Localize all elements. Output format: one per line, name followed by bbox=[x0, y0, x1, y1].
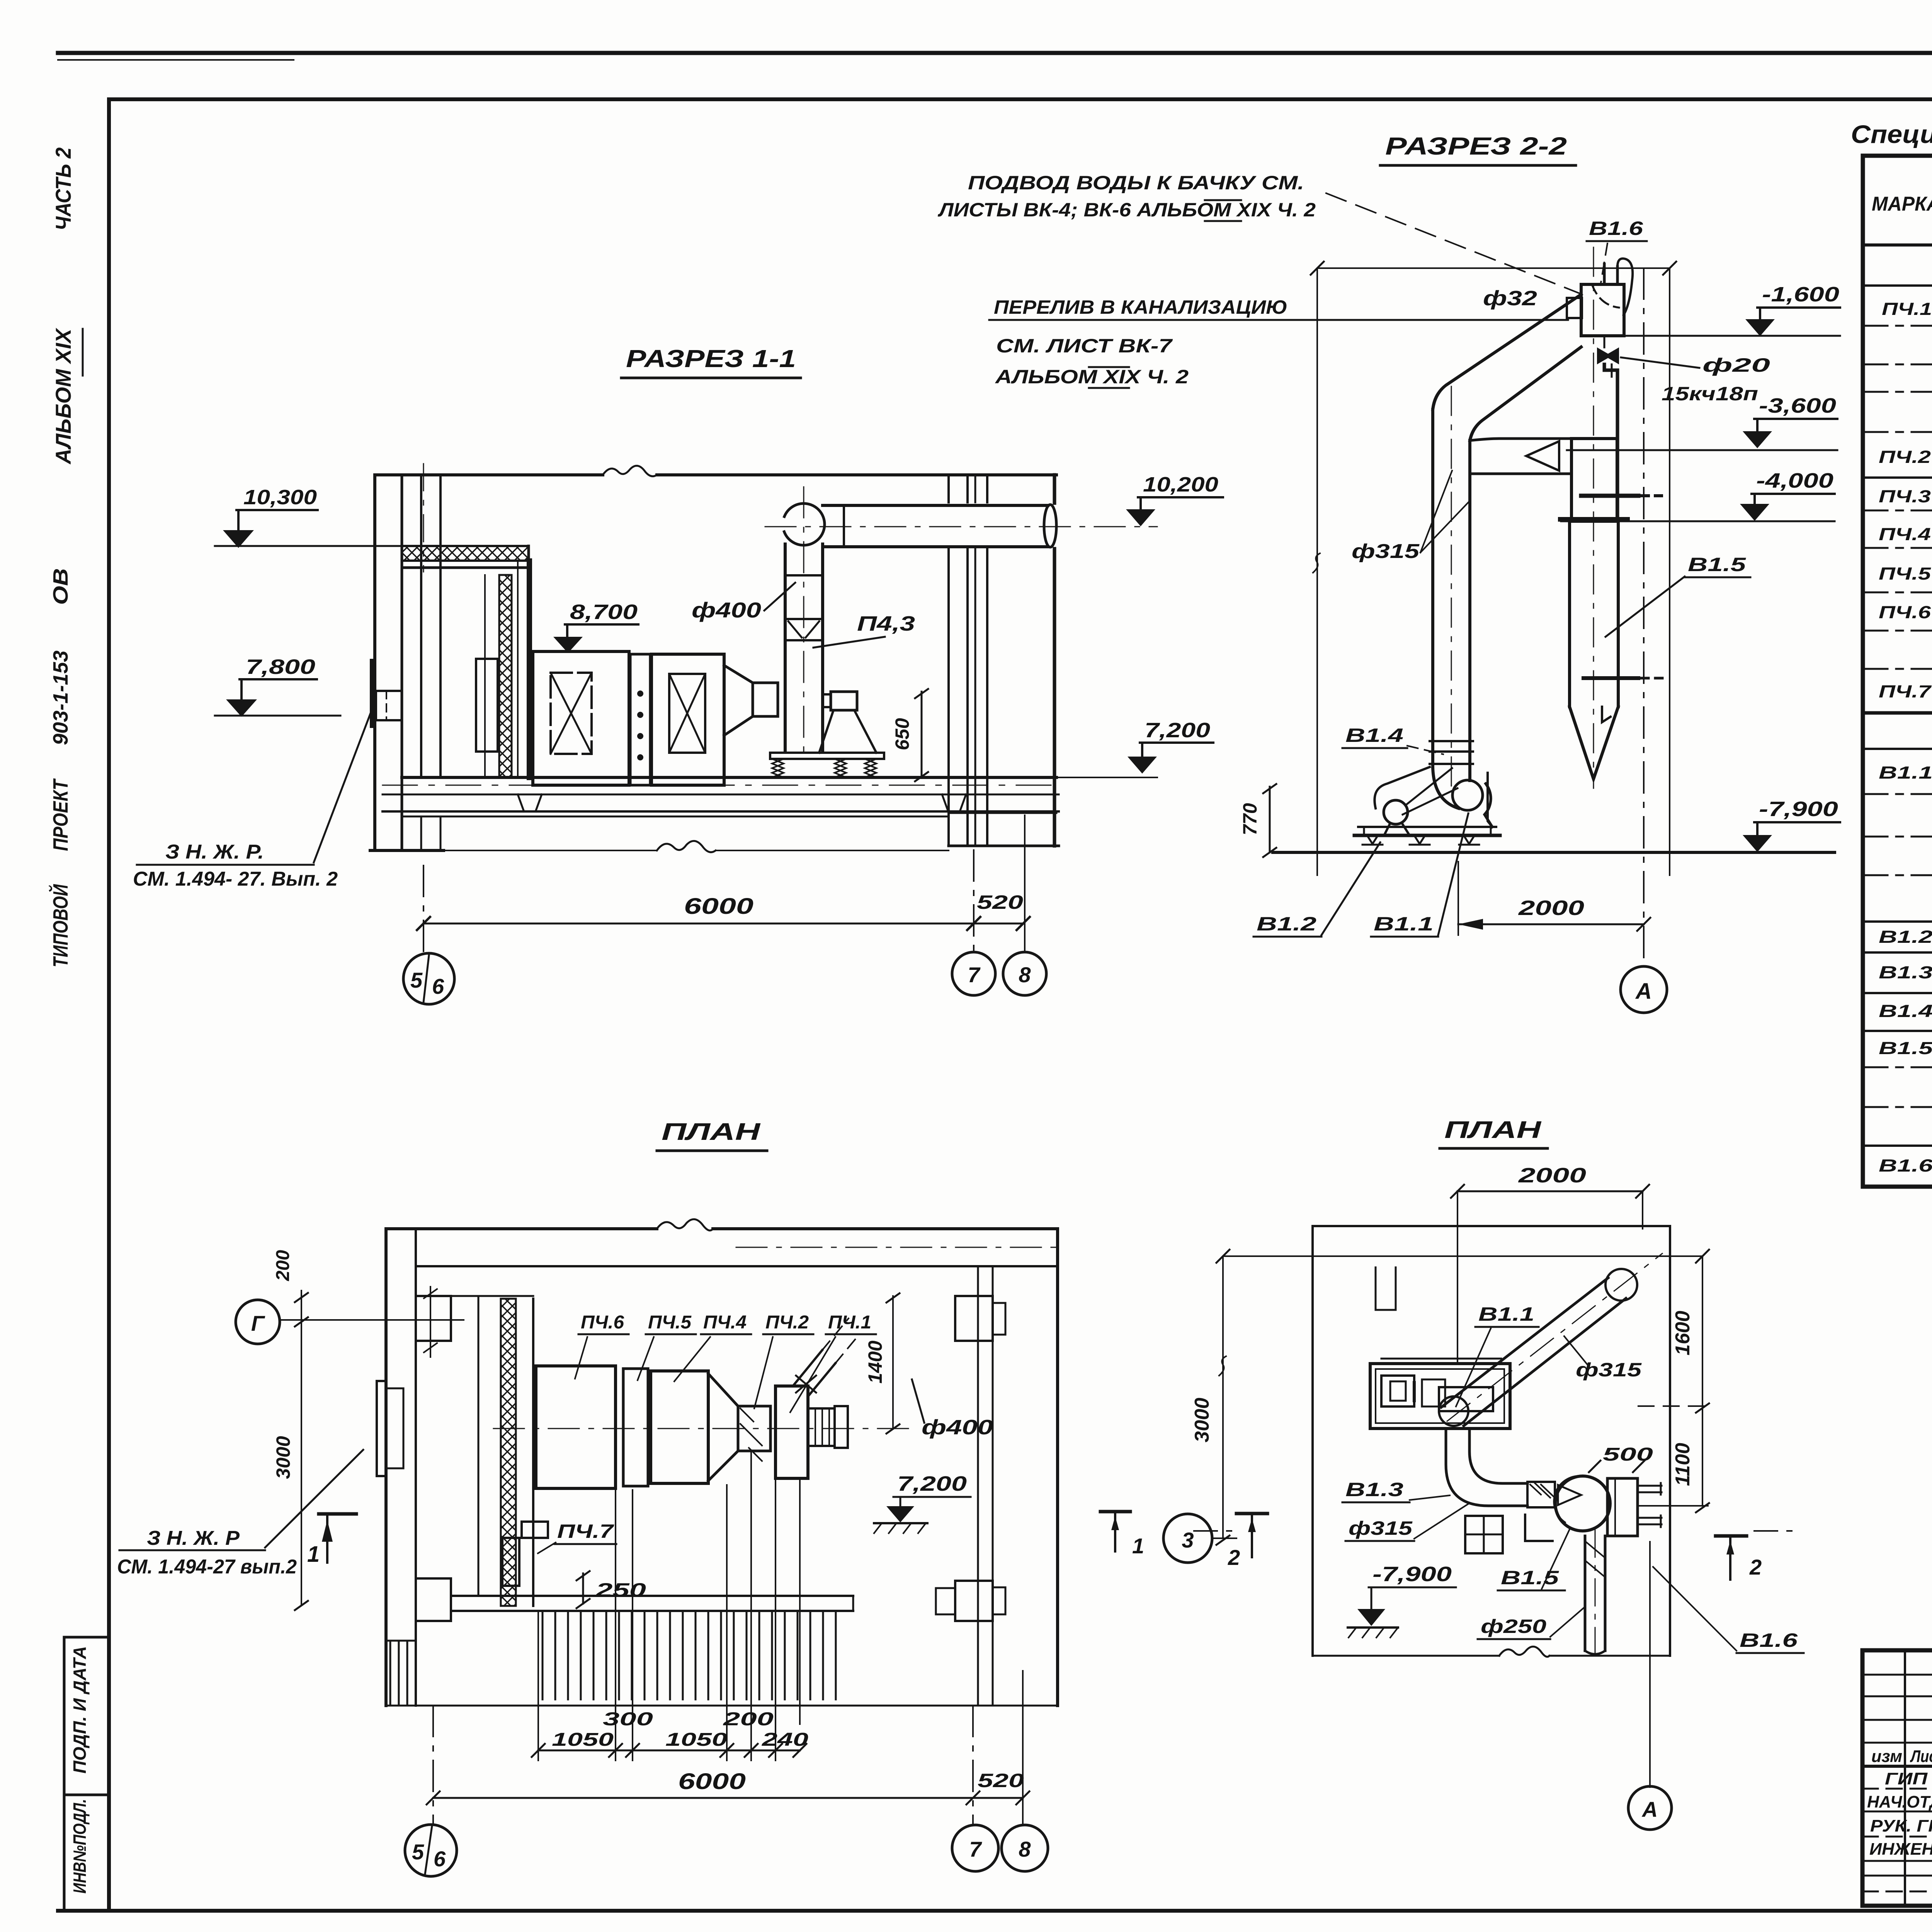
svg-text:СМ. ЛИСТ ВК-7: СМ. ЛИСТ ВК-7 bbox=[996, 335, 1173, 357]
svg-text:200: 200 bbox=[723, 1709, 774, 1730]
platform edge lines bbox=[451, 1595, 853, 1597]
svg-text:903-1-153: 903-1-153 bbox=[49, 651, 72, 745]
overall dimension lines bbox=[1317, 267, 1670, 269]
left wall footing bbox=[420, 816, 422, 850]
svg-text:З Н. Ж. Р.: З Н. Ж. Р. bbox=[165, 841, 264, 863]
fan В1.1 elbow bbox=[1433, 742, 1470, 808]
svg-text:15кч18п: 15кч18п bbox=[1662, 383, 1758, 405]
flow arrow in duct bbox=[1526, 441, 1559, 471]
svg-text:НАЧ.ОТД.: НАЧ.ОТД. bbox=[1867, 1793, 1932, 1811]
svg-text:ПЧ.2: ПЧ.2 bbox=[1879, 447, 1931, 467]
small comb below left wall bbox=[390, 1641, 407, 1706]
unit В1.1 outer box bbox=[1370, 1364, 1510, 1429]
svg-text:1600: 1600 bbox=[1672, 1311, 1694, 1355]
svg-text:А: А bbox=[1635, 979, 1652, 1004]
svg-text:ПЧ.6: ПЧ.6 bbox=[1879, 602, 1931, 622]
grid axis 5/6 bbox=[423, 866, 424, 953]
cyclone body В1.5 bbox=[1570, 521, 1618, 707]
svg-text:ф400: ф400 bbox=[692, 598, 761, 622]
wall left inner line bbox=[401, 475, 403, 850]
dimension 650 bbox=[921, 692, 923, 777]
row lines dashed bbox=[1863, 325, 1932, 327]
fan impeller circle bbox=[1452, 780, 1483, 810]
pilaster bottom-left bbox=[416, 1578, 451, 1621]
svg-text:ПЧ.1: ПЧ.1 bbox=[828, 1312, 871, 1333]
cyclone flange 1 bbox=[1581, 494, 1638, 498]
section mark 2 right bbox=[1716, 1534, 1747, 1538]
svg-text:Спецификация отопительно-венти: Спецификация отопительно-вентиляционных … bbox=[1851, 120, 1932, 148]
partition wall line bbox=[478, 1296, 480, 1596]
svg-text:10,200: 10,200 bbox=[1143, 473, 1218, 496]
svg-text:СМ. 1.494- 27. Вып. 2: СМ. 1.494- 27. Вып. 2 bbox=[133, 868, 338, 890]
flexible insert В1.4 on riser bbox=[1430, 740, 1473, 742]
svg-text:РАЗРЕЗ 2-2: РАЗРЕЗ 2-2 bbox=[1385, 132, 1567, 160]
table header texts bbox=[1872, 177, 1932, 748]
svg-text:10,300: 10,300 bbox=[243, 486, 317, 509]
svg-text:520: 520 bbox=[977, 891, 1023, 913]
vibration springs bbox=[772, 759, 784, 777]
grid axis А bbox=[1649, 1542, 1651, 1787]
svg-text:770: 770 bbox=[1239, 803, 1261, 835]
svg-text:250: 250 bbox=[595, 1579, 646, 1601]
fan scroll plan bbox=[1439, 1387, 1493, 1411]
pipe centerline bbox=[765, 526, 1157, 527]
floor slab lines bbox=[383, 794, 1059, 796]
svg-text:В1.6: В1.6 bbox=[1740, 1629, 1798, 1651]
svg-text:-4,000: -4,000 bbox=[1756, 469, 1833, 492]
svg-text:-3,600: -3,600 bbox=[1759, 394, 1836, 417]
left wall lines bbox=[384, 1229, 388, 1706]
svg-text:В1.4: В1.4 bbox=[1879, 1001, 1932, 1021]
dimension 1400 bbox=[892, 1296, 894, 1429]
dimension 200 left bbox=[301, 1291, 302, 1605]
svg-text:ф20: ф20 bbox=[1702, 354, 1770, 376]
svg-text:7,200: 7,200 bbox=[897, 1472, 967, 1495]
svg-text:В1.1: В1.1 bbox=[1879, 763, 1932, 782]
tank top pipe bbox=[1604, 264, 1617, 284]
partition hatched strip bbox=[501, 1299, 516, 1606]
right wall outer edge bbox=[1053, 475, 1056, 846]
left table verticals bbox=[1905, 1650, 1932, 1906]
svg-text:7: 7 bbox=[969, 1837, 982, 1861]
leader to wall door bbox=[314, 704, 374, 862]
cyclone expansion box bbox=[1571, 439, 1617, 521]
pipe ф250 down from cyclone bbox=[1585, 1536, 1605, 1651]
svg-text:В1.4: В1.4 bbox=[1345, 724, 1403, 746]
ceiling slab hatched band bbox=[402, 546, 529, 561]
svg-text:ПЧ.2: ПЧ.2 bbox=[765, 1312, 809, 1333]
top dimension line bbox=[1223, 1255, 1702, 1257]
svg-text:650: 650 bbox=[891, 718, 913, 750]
riser centerline bbox=[1451, 386, 1452, 788]
dimension 770 bbox=[1269, 787, 1271, 852]
svg-text:1: 1 bbox=[1132, 1534, 1144, 1558]
svg-text:7,800: 7,800 bbox=[246, 655, 315, 679]
right wall lines bbox=[1056, 1229, 1059, 1706]
left table header texts bbox=[1867, 1747, 1932, 1859]
overflow valve bbox=[1604, 336, 1605, 347]
small stub top bbox=[1376, 1267, 1396, 1310]
filter X-panel in box ПЧ.6 bbox=[551, 673, 592, 754]
svg-text:РУК. ГР.: РУК. ГР. bbox=[1870, 1816, 1932, 1835]
svg-text:ЛИСТЫ ВК-4; ВК-6 АЛЬБОМ XIX: ЛИСТЫ ВК-4; ВК-6 АЛЬБОМ XIX Ч. 2 bbox=[938, 199, 1316, 221]
dimension 2000 bbox=[1458, 923, 1644, 925]
svg-text:7: 7 bbox=[968, 963, 981, 987]
insulated partition hatched strip bbox=[499, 575, 512, 777]
motor block bbox=[1381, 1376, 1414, 1406]
dimension 6000 bottom bbox=[433, 1797, 973, 1799]
svg-text:В1.6: В1.6 bbox=[1589, 218, 1644, 239]
cyclone tank В1.6 bbox=[1581, 284, 1624, 336]
top wall outer line bbox=[386, 1227, 1058, 1230]
flexible insert В1.3 bbox=[1527, 1482, 1555, 1507]
left margin stamp column boxes bbox=[64, 1636, 109, 1639]
svg-text:300: 300 bbox=[603, 1709, 653, 1730]
cyclone flange 2 bbox=[1560, 517, 1628, 522]
wall door element (З.Н.Ж.Р.) bbox=[370, 661, 374, 726]
svg-text:ПЧ.3: ПЧ.3 bbox=[1879, 486, 1931, 506]
outlet duct with flexible lines bbox=[808, 1408, 835, 1446]
small dims line bbox=[538, 1750, 800, 1752]
svg-text:ПЕРЕЛИВ В КАНАЛИЗАЦИЮ: ПЕРЕЛИВ В КАНАЛИЗАЦИЮ bbox=[994, 296, 1287, 318]
svg-text:ПЧ.1: ПЧ.1 bbox=[1882, 299, 1932, 319]
branch duct to cyclone bbox=[1470, 439, 1571, 474]
stub pipes right bbox=[1638, 1486, 1662, 1524]
unit ПЧ.4 plan bbox=[651, 1371, 708, 1483]
fan scroll bbox=[1485, 784, 1492, 827]
connecting duct bbox=[753, 683, 778, 716]
riser pipe ф315 vertical bbox=[1433, 410, 1470, 767]
svg-text:АЛЬБОМ XIX Ч. 2: АЛЬБОМ XIX Ч. 2 bbox=[995, 366, 1189, 388]
svg-text:1100: 1100 bbox=[1672, 1443, 1694, 1486]
svg-text:3: 3 bbox=[1182, 1528, 1194, 1552]
fan ПЧ.1 plan bbox=[776, 1386, 808, 1478]
floor level dash line bbox=[383, 785, 1059, 786]
dimension extension lines bbox=[538, 1453, 800, 1760]
break squiggle top bbox=[603, 466, 657, 476]
column lines inside left wall bbox=[420, 475, 422, 777]
table outer border bbox=[1863, 156, 1932, 1187]
paper top edge line bbox=[58, 51, 1932, 55]
corner L mark bbox=[1525, 1515, 1553, 1541]
left table horizontals bbox=[1862, 1675, 1932, 1891]
svg-text:ИНЖЕН.: ИНЖЕН. bbox=[1869, 1840, 1932, 1859]
grating comb bbox=[543, 1611, 836, 1699]
room outline bbox=[1313, 1226, 1670, 1656]
section mark 1 left bbox=[319, 1512, 356, 1516]
diagonal pipe to tank bbox=[1433, 294, 1581, 440]
svg-text:2: 2 bbox=[1749, 1555, 1762, 1579]
svg-text:8: 8 bbox=[1019, 1837, 1031, 1861]
svg-text:В1.6: В1.6 bbox=[1879, 1156, 1932, 1175]
svg-text:2000: 2000 bbox=[1518, 1164, 1586, 1187]
svg-text:1400: 1400 bbox=[864, 1340, 886, 1383]
cyclone centerline bbox=[1593, 247, 1594, 788]
duct joint lines bbox=[785, 618, 823, 620]
flexible insert П4.3 marks bbox=[788, 621, 819, 638]
pilaster bottom-right bbox=[955, 1581, 993, 1621]
svg-text:ф315: ф315 bbox=[1349, 1517, 1413, 1539]
bottom plan edge line bbox=[386, 1705, 1058, 1707]
unit ПЧ.5 plan bbox=[623, 1369, 648, 1486]
grid circle 3 bbox=[1163, 1514, 1212, 1563]
right wall footing line bbox=[949, 845, 1059, 847]
svg-text:СМ. 1.494-27 вып.2: СМ. 1.494-27 вып.2 bbox=[117, 1556, 297, 1578]
right wall columns bbox=[947, 475, 950, 846]
svg-text:520: 520 bbox=[978, 1770, 1024, 1791]
svg-text:ф400: ф400 bbox=[922, 1416, 993, 1439]
svg-text:2: 2 bbox=[1228, 1545, 1240, 1570]
svg-text:В1.1: В1.1 bbox=[1374, 913, 1434, 935]
pipe from valve down along cyclone bbox=[1604, 364, 1617, 520]
svg-text:ПЧ.5: ПЧ.5 bbox=[648, 1312, 692, 1333]
svg-text:В1.2: В1.2 bbox=[1879, 927, 1932, 947]
svg-text:ПЛАН: ПЛАН bbox=[1444, 1117, 1542, 1143]
inlet cone braces bbox=[1403, 768, 1458, 815]
diagonal pipe ф315 up right bbox=[1441, 1278, 1626, 1426]
fan centerline vertical bbox=[803, 487, 804, 753]
svg-text:6000: 6000 bbox=[684, 894, 753, 919]
flexible insert ПЧ.2 plan bbox=[738, 1406, 770, 1451]
grid axes bottom bbox=[432, 1706, 434, 1825]
svg-text:З Н. Ж. Р: З Н. Ж. Р bbox=[147, 1527, 240, 1549]
unit ПЧ.6 plan bbox=[536, 1366, 616, 1488]
svg-text:ПРОЕКТ: ПРОЕКТ bbox=[49, 778, 72, 851]
svg-text:В1.3: В1.3 bbox=[1345, 1479, 1403, 1500]
dimension 6000 bbox=[423, 923, 974, 925]
svg-text:ГИП: ГИП bbox=[1885, 1769, 1928, 1788]
flow arrow before cyclone bbox=[1558, 1485, 1581, 1505]
ceiling slab line bbox=[375, 473, 1056, 476]
bottom break squiggle bbox=[657, 841, 716, 852]
dimension 1600 / 1100 right bbox=[1702, 1256, 1703, 1506]
svg-text:6000: 6000 bbox=[678, 1769, 746, 1794]
door opening in left wall bbox=[377, 1381, 386, 1476]
svg-text:500: 500 bbox=[1603, 1444, 1653, 1465]
svg-text:ОВ: ОВ bbox=[49, 568, 72, 605]
pipe end circle bbox=[1605, 1269, 1637, 1301]
filter X-panel in box ПЧ.4 bbox=[669, 674, 705, 753]
svg-text:ПЧ.5: ПЧ.5 bbox=[1879, 564, 1931, 583]
svg-text:АЛЬБОМ XIX: АЛЬБОМ XIX bbox=[51, 327, 75, 465]
connecting section with bolts bbox=[630, 654, 650, 785]
svg-text:7,200: 7,200 bbox=[1145, 719, 1210, 742]
svg-text:ПЧ.4: ПЧ.4 bbox=[1879, 524, 1931, 544]
fan base plate bbox=[770, 753, 884, 759]
title block outer box bbox=[1862, 1650, 1932, 1906]
transition cone bbox=[724, 665, 753, 735]
pipe down from unit bbox=[1446, 1429, 1527, 1506]
unit centerline bbox=[493, 1428, 918, 1429]
svg-text:В1.2: В1.2 bbox=[1257, 913, 1316, 935]
fan circle bbox=[1439, 1396, 1468, 1426]
svg-text:изм: изм bbox=[1871, 1747, 1902, 1766]
svg-text:1050: 1050 bbox=[665, 1730, 727, 1750]
svg-text:ПЧ.6: ПЧ.6 bbox=[581, 1312, 624, 1333]
svg-text:5: 5 bbox=[410, 968, 423, 992]
svg-text:-1,600: -1,600 bbox=[1762, 283, 1839, 306]
svg-text:ИНВ№ПОДЛ.: ИНВ№ПОДЛ. bbox=[70, 1799, 90, 1894]
vibration isolators В1.2 bbox=[1362, 835, 1479, 845]
fan П4.1 vertical duct bbox=[785, 544, 823, 752]
svg-text:В1.5: В1.5 bbox=[1879, 1038, 1932, 1058]
svg-text:МАРКА: МАРКА bbox=[1872, 193, 1932, 215]
lower line below slab bbox=[402, 816, 949, 818]
svg-text:6: 6 bbox=[434, 1847, 446, 1871]
svg-text:200: 200 bbox=[273, 1250, 293, 1281]
pilaster top-right bbox=[955, 1296, 993, 1341]
transition cone plan bbox=[708, 1374, 738, 1481]
drain square with cross bbox=[1465, 1516, 1503, 1553]
grid axis 7 bbox=[973, 850, 975, 952]
svg-text:В1.1: В1.1 bbox=[1478, 1303, 1534, 1325]
svg-text:ПЧ.7: ПЧ.7 bbox=[557, 1520, 614, 1542]
svg-text:А: А bbox=[1641, 1797, 1658, 1821]
svg-text:ПОДВОД ВОДЫ К БАЧКУ СМ.: ПОДВОД ВОДЫ К БАЧКУ СМ. bbox=[968, 172, 1304, 194]
svg-text:-7,900: -7,900 bbox=[1372, 1563, 1452, 1586]
fan base frame bbox=[1358, 826, 1496, 828]
svg-text:3000: 3000 bbox=[272, 1436, 294, 1479]
unit box ПЧ.4 section bbox=[651, 654, 724, 785]
fan discharge diagonal bbox=[793, 1350, 835, 1396]
top wall inner line bbox=[416, 1265, 1058, 1267]
svg-text:5: 5 bbox=[412, 1840, 424, 1864]
fan block bbox=[1422, 1379, 1445, 1406]
table body text bbox=[1879, 291, 1932, 1175]
svg-text:ПЧ.4: ПЧ.4 bbox=[703, 1312, 747, 1333]
floor slab top line bbox=[402, 776, 1056, 779]
discharge pipe to right bbox=[823, 505, 1048, 547]
ПЧ section row bottom bbox=[1863, 284, 1932, 287]
dash leader from note to tank bbox=[1326, 193, 1580, 294]
label leaders bbox=[575, 1337, 587, 1379]
svg-text:8,700: 8,700 bbox=[570, 600, 638, 624]
svg-text:ф32: ф32 bbox=[1483, 287, 1537, 310]
partition dark edge bbox=[527, 561, 532, 777]
floor line bbox=[1273, 851, 1835, 854]
fan top circle bbox=[783, 503, 825, 545]
axis dash line in wall bbox=[423, 464, 424, 572]
svg-text:ф315: ф315 bbox=[1352, 540, 1420, 563]
section mark 1 right bbox=[1100, 1510, 1130, 1514]
svg-text:1: 1 bbox=[307, 1542, 320, 1567]
svg-text:ПЛАН: ПЛАН bbox=[662, 1119, 761, 1145]
svg-text:240: 240 bbox=[762, 1730, 809, 1750]
wall left outer line bbox=[373, 475, 376, 850]
svg-text:РАЗРЕЗ 1-1: РАЗРЕЗ 1-1 bbox=[626, 345, 796, 372]
svg-text:8: 8 bbox=[1019, 963, 1031, 987]
pipe end cap bbox=[1044, 505, 1056, 547]
header bottom line bbox=[1863, 243, 1932, 247]
svg-text:3000: 3000 bbox=[1191, 1398, 1213, 1442]
grid axis 8 bbox=[1024, 815, 1026, 952]
svg-text:Г: Г bbox=[251, 1311, 265, 1335]
svg-text:ф250: ф250 bbox=[1481, 1616, 1546, 1637]
cyclone В1.5 plan circle bbox=[1555, 1476, 1610, 1531]
svg-text:ПОДП. И ДАТА: ПОДП. И ДАТА bbox=[70, 1646, 90, 1774]
svg-text:ПЧ.7: ПЧ.7 bbox=[1879, 682, 1932, 701]
svg-text:6: 6 bbox=[432, 974, 444, 998]
row lines solid bbox=[1863, 476, 1932, 479]
cyclone lower flange bbox=[1583, 676, 1638, 680]
tank left outlet bbox=[1567, 298, 1582, 318]
svg-text:В1.3: В1.3 bbox=[1879, 963, 1932, 982]
unit box ПЧ.6 section bbox=[533, 651, 629, 785]
upper wall axis dash-dot bbox=[736, 1247, 1058, 1248]
svg-text:ЧАСТЬ 2: ЧАСТЬ 2 bbox=[51, 148, 75, 231]
bunker box right bbox=[1607, 1478, 1638, 1536]
ceiling slab lower line bbox=[402, 566, 529, 569]
slab joint marks bbox=[518, 794, 542, 811]
svg-text:2000: 2000 bbox=[1518, 896, 1584, 920]
cyclone cone bbox=[1570, 707, 1618, 779]
svg-text:-7,900: -7,900 bbox=[1759, 798, 1838, 821]
svg-text:В1.5: В1.5 bbox=[1688, 554, 1747, 575]
pilaster axis tick bbox=[430, 1287, 431, 1357]
motor bbox=[1384, 800, 1408, 824]
svg-text:П4,3: П4,3 bbox=[857, 612, 915, 635]
pilaster top-left bbox=[416, 1296, 451, 1341]
svg-text:ТИПОВОЙ: ТИПОВОЙ bbox=[48, 884, 72, 968]
dimension 520 bbox=[974, 923, 1023, 925]
svg-text:1050: 1050 bbox=[552, 1730, 614, 1750]
hermetic door ПЧ.7 bbox=[522, 1522, 548, 1538]
filter box left of partition bbox=[476, 659, 498, 752]
dimension 3000 left bbox=[1222, 1256, 1224, 1538]
grid axis А bbox=[1643, 268, 1645, 965]
fan support pedestal bbox=[831, 692, 857, 710]
svg-text:Лист: Лист bbox=[1910, 1747, 1932, 1766]
grid axis Г left bbox=[236, 1300, 280, 1344]
unit top rails bbox=[1381, 1358, 1501, 1360]
section mark 2 left bbox=[1236, 1512, 1267, 1515]
